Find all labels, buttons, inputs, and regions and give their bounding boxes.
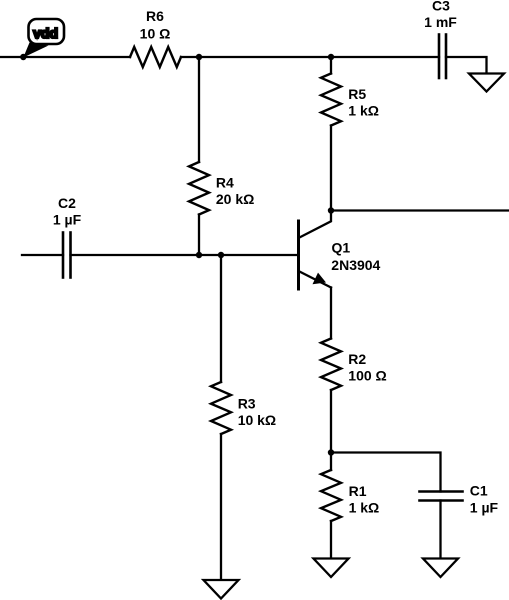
capacitor C1	[420, 492, 463, 501]
resistor R2	[321, 339, 341, 391]
label C1 value	[470, 482, 499, 515]
label R3 value	[238, 395, 276, 428]
svg-text:1 µF: 1 µF	[53, 212, 82, 228]
resistor R1	[321, 470, 341, 521]
resistor R3	[211, 382, 231, 434]
svg-text:Q1: Q1	[332, 240, 351, 256]
wire junction to C1	[331, 453, 441, 492]
wire R5 top lead	[330, 57, 332, 74]
label C2 value	[53, 195, 82, 228]
resistor R6	[130, 47, 181, 67]
ground for R3	[204, 580, 239, 599]
svg-text:R2: R2	[348, 351, 366, 367]
wire R4 top lead	[198, 57, 200, 162]
transistor Q1 emitter arrow	[313, 273, 327, 285]
svg-text:1 kΩ: 1 kΩ	[349, 500, 380, 516]
svg-text:1 mF: 1 mF	[424, 14, 457, 30]
node junction R4 top	[196, 54, 202, 60]
svg-text:R5: R5	[348, 86, 366, 102]
svg-text:10 Ω: 10 Ω	[140, 26, 171, 42]
wire vdd rail middle segment	[181, 56, 439, 58]
net flag vdd	[23, 19, 64, 58]
capacitor C3	[439, 35, 446, 79]
label R1 value	[349, 483, 380, 516]
svg-text:R3: R3	[238, 395, 256, 411]
node junction R3 top	[218, 252, 224, 258]
capacitor C2	[63, 233, 71, 278]
wire input lead	[22, 254, 63, 256]
svg-text:R1: R1	[349, 483, 367, 499]
node collector junction	[328, 207, 334, 213]
wire emitter to R2	[330, 288, 332, 339]
svg-text:vdd: vdd	[33, 25, 58, 41]
transistor Q1 base bar	[297, 221, 300, 289]
label R5 value	[348, 86, 379, 119]
svg-text:100 Ω: 100 Ω	[348, 368, 386, 384]
transistor Q1 emitter lead	[299, 271, 332, 288]
label R4 value	[216, 175, 254, 208]
svg-text:C2: C2	[58, 195, 76, 211]
wire R5 bottom lead	[330, 126, 332, 211]
wire C3 to ground	[446, 57, 487, 74]
svg-text:1 µF: 1 µF	[470, 500, 499, 516]
wire C1 bottom lead	[439, 501, 441, 559]
svg-text:C3: C3	[432, 0, 450, 14]
svg-text:R4: R4	[216, 175, 234, 191]
node junction R4 bottom	[196, 252, 202, 258]
node vdd tap	[20, 54, 26, 60]
wire R3 bottom lead	[220, 434, 222, 580]
transistor Q1 collector lead	[299, 211, 332, 239]
label Q1 value	[331, 240, 380, 273]
svg-text:1 kΩ: 1 kΩ	[348, 103, 379, 119]
svg-text:R6: R6	[146, 8, 164, 24]
resistor R4	[189, 162, 209, 215]
wire base wire	[71, 254, 299, 256]
label R2 value	[348, 351, 386, 383]
svg-text:20 kΩ: 20 kΩ	[216, 191, 254, 207]
wire R1 bottom lead	[330, 521, 332, 559]
wire R3 top lead	[220, 255, 222, 382]
label R6 value	[140, 8, 171, 42]
svg-text:C1: C1	[470, 482, 488, 498]
wire R4 bottom lead	[198, 215, 200, 256]
svg-text:10 kΩ: 10 kΩ	[238, 412, 276, 428]
wire vdd rail left segment	[0, 56, 130, 58]
ground for C1	[423, 559, 458, 578]
wire R2 bottom lead	[330, 390, 332, 453]
node junction R5 top	[328, 54, 334, 60]
wire output	[331, 209, 509, 211]
ground for R1	[314, 559, 349, 578]
node emitter network junction	[328, 449, 334, 455]
svg-text:2N3904: 2N3904	[331, 257, 380, 273]
wire R1 top lead	[330, 453, 332, 471]
resistor R5	[321, 74, 341, 126]
ground for C3	[469, 74, 504, 92]
label C3 value	[424, 0, 457, 30]
